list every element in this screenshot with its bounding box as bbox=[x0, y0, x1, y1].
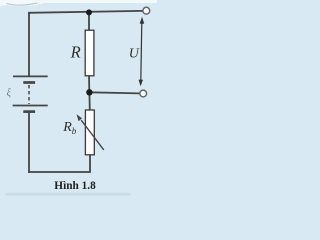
svg-text:R: R bbox=[70, 43, 81, 62]
svg-text:Hình 1.8: Hình 1.8 bbox=[54, 180, 96, 192]
svg-text:b: b bbox=[72, 126, 77, 136]
svg-text:ξ: ξ bbox=[7, 88, 12, 99]
svg-text:R: R bbox=[62, 120, 72, 135]
svg-text:U: U bbox=[129, 47, 140, 62]
